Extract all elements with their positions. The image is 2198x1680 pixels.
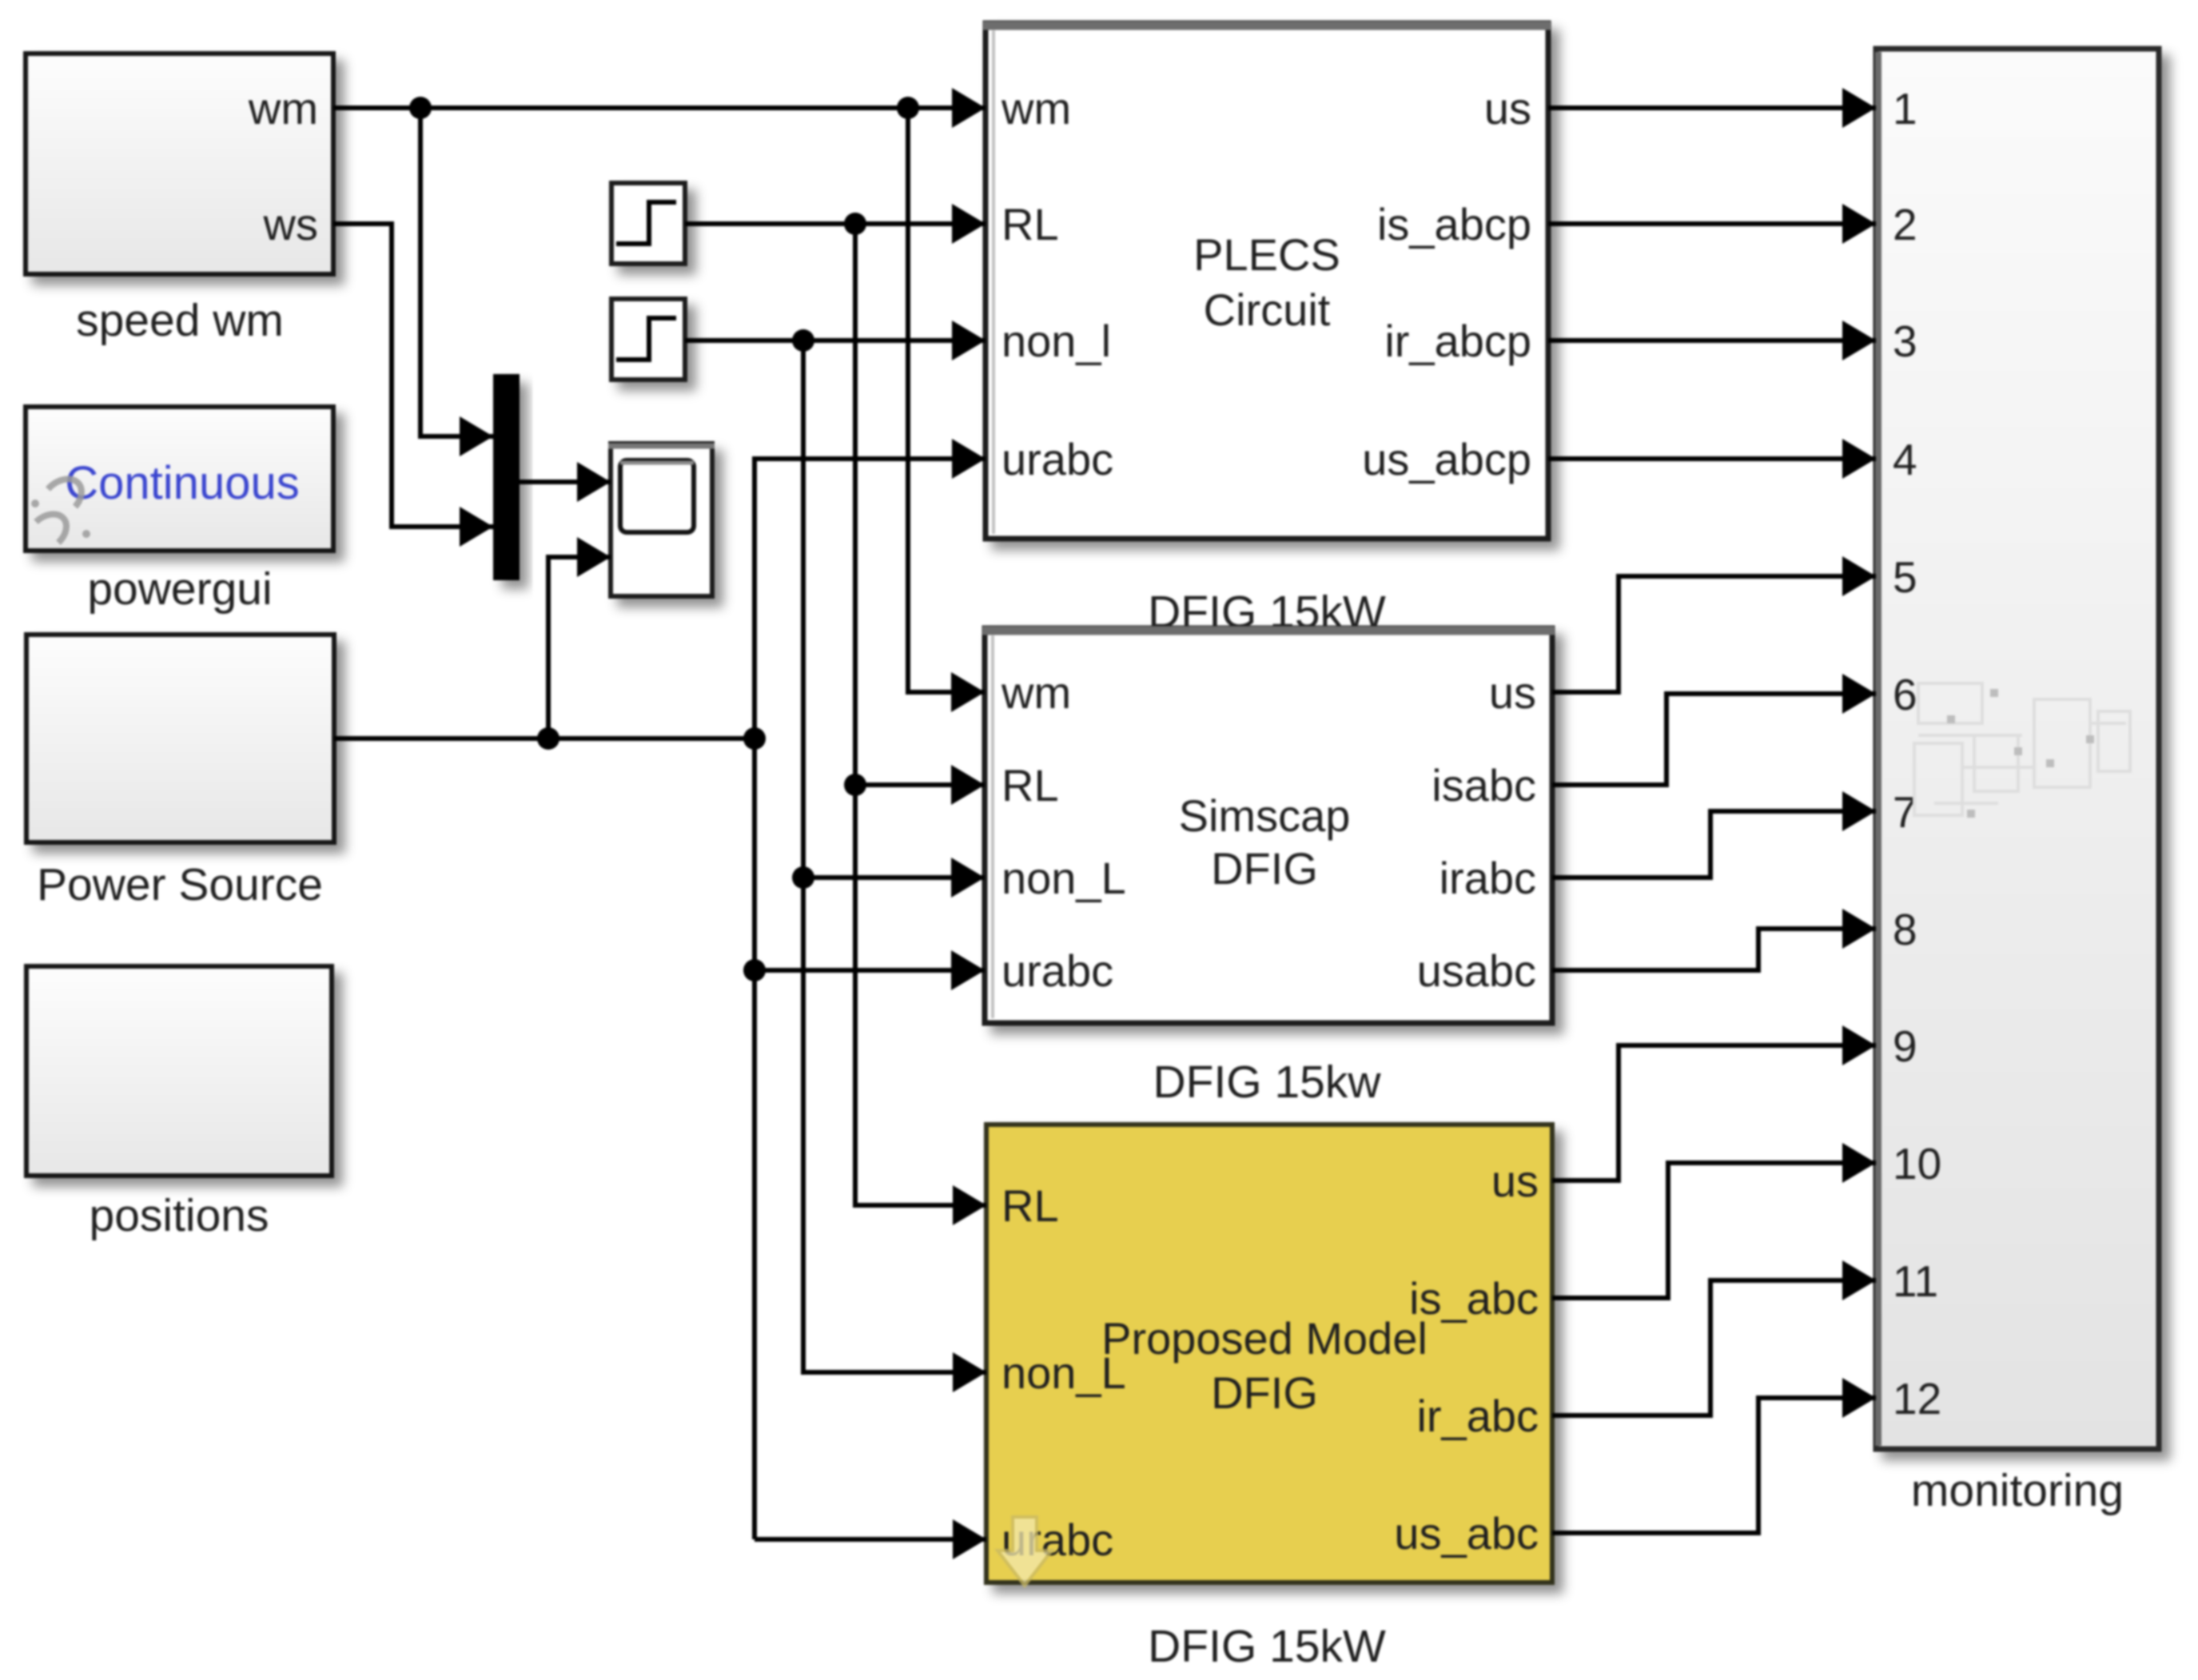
arrow port5 bbox=[1842, 556, 1876, 596]
svg-text:us: us bbox=[1489, 667, 1536, 718]
arrow scope in1 bbox=[577, 462, 611, 502]
badge translucent down arrow bbox=[997, 1517, 1052, 1586]
svg-text:RL: RL bbox=[1001, 760, 1059, 810]
svg-text:non_L: non_L bbox=[1001, 853, 1126, 903]
svg-text:non_l: non_l bbox=[1001, 316, 1111, 366]
svg-text:us: us bbox=[1484, 83, 1531, 133]
svg-text:DFIG: DFIG bbox=[1211, 1367, 1318, 1418]
svg-text:8: 8 bbox=[1893, 905, 1917, 954]
wire yellow ir_abc to port11 bbox=[1552, 1280, 1876, 1415]
svg-text:Circuit: Circuit bbox=[1204, 285, 1331, 335]
svg-text:ir_abc: ir_abc bbox=[1416, 1391, 1539, 1441]
svg-text:Proposed Model: Proposed Model bbox=[1101, 1313, 1428, 1364]
wire ir_abcp to port3 bbox=[1548, 338, 1876, 343]
wire RL bus bbox=[855, 224, 986, 1205]
wire ws to mux bbox=[333, 224, 493, 527]
svg-text:RL: RL bbox=[1001, 1180, 1059, 1231]
wire irabc to port7 bbox=[1552, 811, 1876, 878]
svg-text:ir_abcp: ir_abcp bbox=[1384, 316, 1531, 366]
svg-text:Simscap: Simscap bbox=[1179, 790, 1351, 841]
block powergui bbox=[26, 407, 333, 551]
svg-text:speed wm: speed wm bbox=[76, 295, 284, 346]
wire Power Source bbox=[334, 736, 755, 741]
junction dots bbox=[409, 97, 919, 981]
svg-text:DFIG 15kw: DFIG 15kw bbox=[1153, 1057, 1381, 1108]
svg-text:11: 11 bbox=[1893, 1256, 1938, 1306]
arrow mux in2 bbox=[460, 507, 493, 547]
arrow yellow RL bbox=[953, 1185, 986, 1225]
svg-text:5: 5 bbox=[1893, 552, 1917, 602]
svg-text:wm: wm bbox=[1001, 667, 1071, 718]
svg-text:is_abc: is_abc bbox=[1409, 1273, 1539, 1324]
arrow port10 bbox=[1842, 1143, 1876, 1183]
arrow PLECS RL bbox=[952, 204, 986, 244]
svg-text:Power Source: Power Source bbox=[37, 859, 323, 910]
svg-text:RL: RL bbox=[1001, 199, 1059, 249]
svg-text:DFIG 15kW: DFIG 15kW bbox=[1148, 1621, 1386, 1672]
svg-text:urabc: urabc bbox=[1001, 945, 1113, 996]
block Power Source bbox=[26, 635, 334, 842]
wire us to port5 bbox=[1552, 576, 1876, 692]
arrow Simscap RL bbox=[951, 765, 985, 805]
arrow PLECS urabc bbox=[952, 439, 986, 479]
arrow port8 bbox=[1842, 909, 1876, 949]
wire wm to mux bbox=[420, 108, 493, 436]
arrow port11 bbox=[1842, 1260, 1876, 1300]
arrow port7 bbox=[1842, 791, 1876, 831]
svg-text:monitoring: monitoring bbox=[1911, 1465, 2124, 1516]
faint preview watermark bbox=[1914, 683, 2130, 815]
wire step1 to RL bbox=[685, 221, 986, 226]
svg-text:isabc: isabc bbox=[1431, 760, 1536, 810]
wire usabc to port8 bbox=[1552, 929, 1876, 970]
block Simscap DFIG bbox=[982, 628, 1555, 1023]
wire isabc to port6 bbox=[1552, 694, 1876, 785]
svg-text:us: us bbox=[1491, 1156, 1539, 1206]
svg-text:positions: positions bbox=[90, 1190, 269, 1241]
svg-text:4: 4 bbox=[1893, 435, 1917, 484]
svg-text:10: 10 bbox=[1893, 1139, 1941, 1188]
arrow port2 bbox=[1842, 204, 1876, 244]
svg-text:2: 2 bbox=[1893, 200, 1917, 249]
svg-text:12: 12 bbox=[1893, 1374, 1941, 1423]
arrow PLECS non_l bbox=[952, 320, 986, 360]
arrow Simscap non_L bbox=[951, 858, 985, 898]
arrowheads bbox=[460, 88, 1876, 1559]
svg-text:powergui: powergui bbox=[87, 563, 272, 615]
svg-text:6: 6 bbox=[1893, 670, 1917, 719]
arrow yellow non_L bbox=[953, 1352, 986, 1392]
wire urabc bus bbox=[755, 459, 986, 1539]
wire non_L bus bbox=[803, 340, 986, 1372]
wire us_abcp to port4 bbox=[1548, 456, 1876, 461]
svg-text:wm: wm bbox=[248, 83, 318, 133]
block monitoring bbox=[1876, 49, 2159, 1449]
wire yellow us to port9 bbox=[1552, 1045, 1876, 1180]
arrow Simscap urabc bbox=[951, 950, 985, 990]
svg-text:9: 9 bbox=[1893, 1021, 1917, 1071]
wire wm to Simscap bbox=[908, 108, 985, 692]
svg-text:PLECS: PLECS bbox=[1193, 229, 1340, 280]
arrow port9 bbox=[1842, 1025, 1876, 1065]
svg-text:DFIG: DFIG bbox=[1211, 843, 1318, 894]
arrow port6 bbox=[1842, 674, 1876, 714]
arrow Simscap wm bbox=[951, 672, 985, 712]
arrow PLECS wm bbox=[952, 88, 986, 128]
wire yellow us_abc to port12 bbox=[1552, 1398, 1876, 1533]
wire step2 to non_l bbox=[685, 338, 986, 343]
svg-text:ws: ws bbox=[263, 199, 318, 249]
wire to scope input 2 bbox=[548, 557, 611, 738]
svg-text:Continuous: Continuous bbox=[65, 457, 299, 509]
block PLECS DFIG 15kW bbox=[983, 23, 1551, 539]
block step1 bbox=[611, 183, 685, 264]
arrow scope in2 bbox=[577, 537, 611, 577]
block scope bbox=[608, 444, 715, 596]
wire mux to scope bbox=[520, 480, 611, 484]
icon broken library link bbox=[31, 479, 90, 543]
svg-text:usabc: usabc bbox=[1417, 945, 1536, 996]
svg-text:1: 1 bbox=[1893, 84, 1917, 133]
svg-text:irabc: irabc bbox=[1439, 853, 1536, 903]
wire wm main bbox=[333, 105, 986, 110]
block Proposed Model DFIG (yellow) bbox=[986, 1125, 1552, 1586]
arrow port4 bbox=[1842, 439, 1876, 479]
svg-text:us_abcp: us_abcp bbox=[1362, 434, 1531, 484]
arrow port3 bbox=[1842, 320, 1876, 360]
block positions bbox=[26, 966, 332, 1176]
wire yellow is_abc to port10 bbox=[1552, 1163, 1876, 1298]
wire is_abcp to port2 bbox=[1548, 221, 1876, 226]
mux bbox=[493, 374, 520, 580]
arrow yellow urabc bbox=[953, 1519, 986, 1559]
svg-text:wm: wm bbox=[1001, 83, 1071, 133]
svg-text:urabc: urabc bbox=[1001, 434, 1113, 484]
wire us to port1 bbox=[1548, 105, 1876, 110]
block speed wm (source subsystem) bbox=[26, 54, 333, 274]
arrow port12 bbox=[1842, 1378, 1876, 1418]
arrow port1 bbox=[1842, 88, 1876, 128]
svg-text:us_abc: us_abc bbox=[1394, 1508, 1539, 1559]
svg-text:3: 3 bbox=[1893, 316, 1917, 366]
arrow mux in1 bbox=[460, 416, 493, 456]
block step2 bbox=[611, 299, 685, 380]
svg-text:is_abcp: is_abcp bbox=[1377, 199, 1531, 249]
